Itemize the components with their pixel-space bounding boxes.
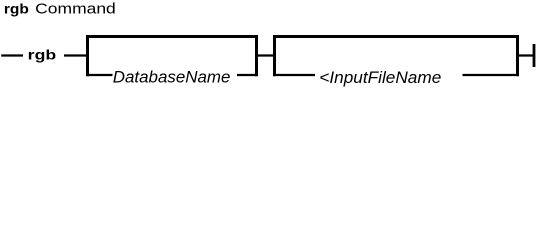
svg-text:rgb: rgb [4, 1, 29, 17]
wire: main segment between branches [257, 54, 275, 56]
svg-text:<InputFileName: <InputFileName [319, 69, 441, 87]
wire: lower branch left segment (InputFileName) [273, 74, 315, 76]
node: right junction of optional InputFileName branch [516, 35, 519, 76]
wire: entry segment [1, 54, 23, 56]
wire: bypass top of DatabaseName branch [86, 35, 258, 38]
wire: exit segment [518, 54, 535, 56]
wire: bypass top of InputFileName branch [273, 35, 519, 38]
svg-text:Command: Command [35, 2, 116, 18]
terminator end bar [533, 44, 536, 67]
wire: lower branch left segment (DatabaseName) [86, 74, 112, 76]
svg-text:rgb: rgb [28, 47, 56, 63]
node: left junction of optional DatabaseName branch [86, 35, 89, 76]
wire: main segment to first branch [64, 54, 88, 56]
svg-text:DatabaseName: DatabaseName [113, 68, 231, 86]
wire: lower branch right segment (DatabaseName) [237, 74, 258, 76]
node: right junction of optional DatabaseName branch [255, 35, 258, 76]
wire: lower branch right segment (InputFileName) [463, 74, 520, 76]
node: left junction of optional InputFileName branch [273, 35, 276, 76]
